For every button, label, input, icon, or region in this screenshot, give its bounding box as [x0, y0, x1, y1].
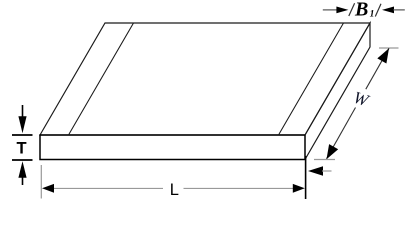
- dimension T lower tick: [12, 159, 33, 161]
- dimension B1 right arrowhead: [382, 7, 394, 14]
- dimension W top arrowhead: [377, 48, 389, 63]
- dimension W bottom extension tick: [314, 159, 335, 161]
- dimension L left arrowhead: [42, 184, 54, 193]
- dimension L line left segment: [50, 187, 163, 189]
- dimension W top extension tick: [379, 47, 399, 49]
- svg-text:B: B: [354, 0, 368, 20]
- side arrow at right extension line: [308, 166, 332, 176]
- svg-text:1: 1: [370, 10, 375, 20]
- dimension B1 left tail: [323, 9, 338, 11]
- dimension W line lower segment: [327, 108, 356, 159]
- dimension T lower arrow: [18, 161, 26, 185]
- dimension W bottom arrowhead: [327, 144, 339, 159]
- dimension T upper tick: [12, 134, 33, 136]
- dimension T upper arrow: [18, 105, 26, 133]
- chip body right side face: [305, 23, 370, 160]
- chip body top face: [40, 23, 370, 135]
- dimension B1 left arrowhead: [336, 7, 348, 14]
- right electrode band line: [279, 23, 344, 135]
- dimension L left extension line: [40, 165, 42, 199]
- left electrode band line: [69, 23, 134, 135]
- svg-text:L: L: [170, 181, 179, 199]
- dimension B1 left slash: [349, 3, 355, 16]
- chip body front face: [40, 135, 305, 160]
- dimension L right arrowhead: [293, 184, 305, 193]
- svg-text:T: T: [16, 140, 26, 158]
- dimension B1 right slash: [375, 4, 381, 17]
- dimension L right extension line: [305, 156, 307, 199]
- dimension W line upper segment: [366, 48, 389, 89]
- dimension L line right segment: [184, 187, 298, 189]
- dimension B1 right tail: [393, 9, 405, 11]
